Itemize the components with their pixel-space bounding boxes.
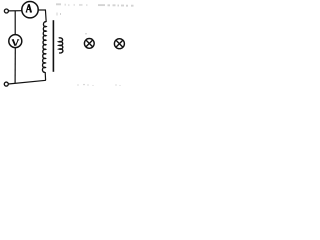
ammeter A xyxy=(22,2,38,18)
wire: bottom rail (sloped) xyxy=(8,80,46,84)
inductor L2 (transformer secondary) xyxy=(59,38,63,53)
terminal T2 (bottom left) xyxy=(4,82,8,86)
faint speck near core top xyxy=(57,13,61,16)
transformer core xyxy=(52,20,54,72)
faint specks bottom right xyxy=(77,84,120,86)
faint cropped text dashes (top) xyxy=(56,4,134,5)
wire: voltmeter to bottom rail xyxy=(14,48,16,84)
faint speck above lamp X1 xyxy=(85,33,86,34)
inductor L1 (transformer primary) xyxy=(42,22,46,72)
wire: coil bottom stub xyxy=(44,72,46,80)
wire: corner down to coil top xyxy=(44,9,47,22)
wire: ammeter to corner xyxy=(38,9,45,11)
wire: T1 to ammeter xyxy=(8,10,21,12)
voltmeter V xyxy=(9,35,22,48)
terminal T1 (top left) xyxy=(4,9,8,13)
node junction (voltmeter tap) xyxy=(14,11,16,35)
lamp X1 xyxy=(84,39,94,49)
lamp X2 xyxy=(114,39,124,49)
